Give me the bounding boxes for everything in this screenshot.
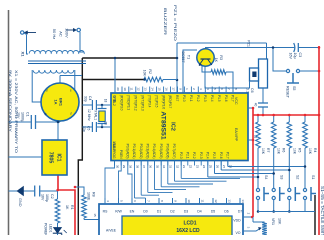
svg-text:R6: R6 <box>282 148 286 152</box>
svg-text:14: 14 <box>151 87 155 91</box>
svg-text:VO: VO <box>235 231 240 235</box>
svg-text:12 MHz: 12 MHz <box>87 109 91 121</box>
svg-text:(TXD)P3.1: (TXD)P3.1 <box>127 95 131 110</box>
svg-text:R7: R7 <box>266 148 270 152</box>
svg-text:1A: 1A <box>54 99 59 104</box>
svg-text:36: 36 <box>149 165 153 169</box>
svg-text:P0.7(AD7): P0.7(AD7) <box>172 144 176 159</box>
svg-text:100µ: 100µ <box>45 194 49 202</box>
svg-text:EA/VPP: EA/VPP <box>234 128 238 142</box>
svg-text:S2: S2 <box>295 175 299 179</box>
svg-text:11: 11 <box>201 199 205 202</box>
svg-text:23: 23 <box>195 165 199 169</box>
svg-text:9V, 300mA SECONDARY: 9V, 300mA SECONDARY <box>8 70 13 132</box>
svg-text:P2.2: P2.2 <box>192 152 196 159</box>
svg-text:R/W: R/W <box>115 210 122 214</box>
svg-text:22: 22 <box>189 165 193 169</box>
svg-text:100E: 100E <box>87 192 91 201</box>
svg-text:(RXD)P3.0: (RXD)P3.0 <box>120 95 124 111</box>
svg-text:LCD1: LCD1 <box>183 221 196 227</box>
svg-text:P1.2: P1.2 <box>196 95 200 102</box>
svg-text:14: 14 <box>241 199 245 203</box>
svg-text:20: 20 <box>116 87 120 91</box>
svg-text:16: 16 <box>164 87 168 91</box>
svg-text:EN: EN <box>130 210 135 214</box>
svg-text:D2: D2 <box>170 210 174 214</box>
svg-text:P1.7: P1.7 <box>231 95 235 102</box>
svg-text:P1.0: P1.0 <box>182 95 186 102</box>
svg-text:VDD: VDD <box>233 219 241 223</box>
svg-text:15: 15 <box>93 213 97 217</box>
svg-text:D5: D5 <box>211 210 215 214</box>
svg-text:D3: D3 <box>184 210 188 214</box>
svg-text:C3: C3 <box>298 53 302 58</box>
svg-text:IC1: IC1 <box>56 153 62 161</box>
svg-text:S5: S5 <box>292 86 296 90</box>
svg-text:13: 13 <box>228 199 232 203</box>
svg-text:AT89S51: AT89S51 <box>159 111 166 139</box>
svg-text:12: 12 <box>137 87 141 91</box>
svg-text:XTAL1: XTAL1 <box>93 110 97 120</box>
svg-text:A/VEE: A/VEE <box>106 229 117 233</box>
svg-text:33p: 33p <box>84 96 88 102</box>
svg-text:P2.7: P2.7 <box>226 152 230 159</box>
svg-text:21: 21 <box>182 165 186 169</box>
svg-text:16V: 16V <box>289 53 293 60</box>
svg-text:37: 37 <box>142 165 146 169</box>
svg-text:S4: S4 <box>264 175 268 179</box>
svg-text:(RD)P3.7: (RD)P3.7 <box>168 95 172 109</box>
svg-text:X1 = 230V AC, 50Hz PRIMARY TO: X1 = 230V AC, 50Hz PRIMARY TO <box>14 70 19 153</box>
svg-text:BC557: BC557 <box>181 52 185 63</box>
svg-text:1K: 1K <box>65 205 69 210</box>
svg-text:32: 32 <box>175 165 179 169</box>
svg-text:34: 34 <box>162 165 166 169</box>
svg-text:P0.3(AD3): P0.3(AD3) <box>146 144 150 159</box>
svg-text:LED1: LED1 <box>49 224 53 233</box>
svg-text:D4: D4 <box>197 210 201 214</box>
svg-text:XTAL2: XTAL2 <box>112 96 116 106</box>
svg-text:GND: GND <box>18 198 22 207</box>
svg-text:D6: D6 <box>224 210 228 214</box>
svg-text:P0.5(AD5): P0.5(AD5) <box>159 144 163 159</box>
svg-text:S1–S5 = TACTILE SWITCHES: S1–S5 = TACTILE SWITCHES <box>320 186 324 235</box>
svg-text:S1: S1 <box>311 175 315 179</box>
svg-text:1K: 1K <box>214 58 218 63</box>
svg-text:10: 10 <box>123 87 127 91</box>
svg-text:−: − <box>69 89 74 92</box>
svg-text:16V: 16V <box>41 194 45 201</box>
svg-text:D7: D7 <box>238 210 242 214</box>
svg-text:(INT0)P3.2: (INT0)P3.2 <box>134 95 138 111</box>
svg-text:XTAL1: XTAL1 <box>112 141 116 151</box>
svg-text:7805: 7805 <box>48 152 54 164</box>
svg-text:40: 40 <box>254 103 258 107</box>
svg-text:PZ1: PZ1 <box>247 40 251 47</box>
svg-text:17: 17 <box>171 87 175 91</box>
svg-text:R8: R8 <box>92 192 96 197</box>
svg-text:P0.1(AD1): P0.1(AD1) <box>132 144 136 159</box>
svg-text:12: 12 <box>214 199 218 203</box>
svg-text:P2.5: P2.5 <box>212 152 216 159</box>
svg-text:C4: C4 <box>88 96 92 100</box>
svg-text:X1: X1 <box>21 52 26 58</box>
svg-text:T1: T1 <box>187 55 191 59</box>
svg-text:POWER: POWER <box>44 223 48 235</box>
svg-text:33: 33 <box>169 165 173 169</box>
svg-text:P0.6(AD6): P0.6(AD6) <box>166 144 170 159</box>
svg-text:R3: R3 <box>219 55 223 60</box>
svg-text:10K: 10K <box>278 218 282 225</box>
svg-text:AC: AC <box>58 31 63 37</box>
svg-text:C6: C6 <box>250 88 254 93</box>
svg-text:(T1)P3.5: (T1)P3.5 <box>154 95 158 108</box>
svg-text:10: 10 <box>187 199 191 203</box>
svg-text:R1: R1 <box>70 205 74 210</box>
svg-text:RESET: RESET <box>285 86 289 99</box>
svg-text:P1.6: P1.6 <box>224 95 228 102</box>
svg-text:P1.4: P1.4 <box>210 95 214 102</box>
svg-text:10K: 10K <box>261 148 265 155</box>
svg-text:R2: R2 <box>148 69 152 74</box>
svg-text:VR1: VR1 <box>271 218 275 225</box>
svg-text:(INT1)P3.3: (INT1)P3.3 <box>140 95 144 111</box>
svg-text:18: 18 <box>104 99 108 103</box>
svg-text:10K: 10K <box>292 148 296 155</box>
svg-text:S3: S3 <box>280 175 284 179</box>
svg-text:19: 19 <box>104 121 108 125</box>
svg-text:33p: 33p <box>82 126 86 132</box>
svg-text:10K: 10K <box>277 148 281 155</box>
svg-text:~: ~ <box>69 112 74 115</box>
svg-text:P0.4(AD4): P0.4(AD4) <box>152 144 156 159</box>
svg-text:IC2: IC2 <box>170 122 176 131</box>
svg-text:P0.0(AD0): P0.0(AD0) <box>126 144 130 159</box>
svg-text:10K: 10K <box>308 148 312 155</box>
svg-text:C2: C2 <box>50 194 54 199</box>
svg-text:(T0)P3.4: (T0)P3.4 <box>147 95 151 108</box>
svg-text:RST: RST <box>175 95 179 101</box>
svg-text:P2.0: P2.0 <box>179 152 183 159</box>
svg-text:38: 38 <box>135 165 139 169</box>
svg-text:30: 30 <box>115 165 119 169</box>
svg-text:BUZZER: BUZZER <box>163 8 168 35</box>
svg-text:+: + <box>42 113 48 116</box>
svg-text:16X2 LCD: 16X2 LCD <box>176 228 200 234</box>
svg-text:P2.1: P2.1 <box>186 152 190 159</box>
svg-text:R5: R5 <box>297 148 301 152</box>
svg-text:(WR)P3.6: (WR)P3.6 <box>161 95 165 109</box>
svg-text:13: 13 <box>144 87 148 91</box>
svg-text:P2.3: P2.3 <box>199 152 203 159</box>
svg-text:P0.2(AD2): P0.2(AD2) <box>139 144 143 159</box>
svg-text:D1: D1 <box>157 210 161 214</box>
svg-text:PSEN: PSEN <box>119 150 123 159</box>
svg-text:~: ~ <box>45 89 50 92</box>
svg-text:P1.1: P1.1 <box>189 95 193 102</box>
svg-text:D0: D0 <box>143 210 147 214</box>
svg-text:26: 26 <box>215 165 219 169</box>
svg-text:11: 11 <box>130 87 134 90</box>
svg-text:RS: RS <box>103 210 108 214</box>
svg-text:1000µ: 1000µ <box>21 112 25 122</box>
svg-text:10µ: 10µ <box>293 53 297 59</box>
svg-text:P2.6: P2.6 <box>219 152 223 159</box>
svg-text:25: 25 <box>209 165 213 169</box>
svg-text:C5: C5 <box>87 126 91 130</box>
svg-text:C1: C1 <box>26 112 30 117</box>
svg-text:10K: 10K <box>142 70 146 77</box>
svg-text:29: 29 <box>122 165 126 169</box>
svg-text:15: 15 <box>157 87 161 91</box>
svg-text:P2.4: P2.4 <box>206 152 210 159</box>
svg-text:230V: 230V <box>65 28 70 38</box>
svg-text:P1.3: P1.3 <box>203 95 207 102</box>
svg-text:39: 39 <box>129 165 133 169</box>
svg-text:PZ1 = PIEZO: PZ1 = PIEZO <box>173 5 178 41</box>
svg-text:35: 35 <box>155 165 159 169</box>
svg-text:R4: R4 <box>313 148 317 152</box>
svg-text:24: 24 <box>202 165 206 169</box>
svg-text:P1.5: P1.5 <box>217 95 221 102</box>
svg-text:27: 27 <box>222 165 226 169</box>
svg-text:50 Hz: 50 Hz <box>52 29 57 39</box>
